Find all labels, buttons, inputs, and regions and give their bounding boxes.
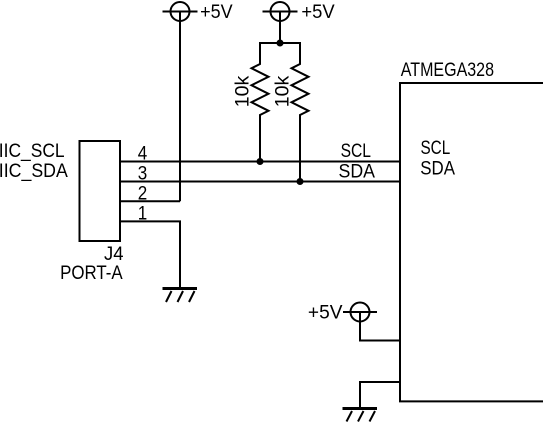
power symbol P3 +5V	[343, 303, 377, 322]
resistor R1 10k	[252, 43, 269, 162]
wire P3 +5V to VCC pin	[360, 312, 400, 341]
svg-text:SCL: SCL	[421, 138, 451, 159]
wire SCL pin 4 to ATMEGA	[120, 161, 400, 163]
svg-text:+5V: +5V	[200, 2, 233, 23]
svg-text:+5V: +5V	[308, 302, 343, 323]
junction dot SCL	[257, 158, 264, 165]
svg-text:J4: J4	[104, 244, 124, 265]
wire P1 +5V down to pin 2	[179, 12, 181, 202]
wire pin 2	[120, 200, 180, 202]
svg-text:+5V: +5V	[301, 2, 335, 23]
ground GND2	[343, 407, 378, 422]
svg-text:10k: 10k	[233, 75, 254, 107]
connector J4 body	[80, 141, 121, 241]
wire pull-up top rail	[259, 42, 301, 44]
wire pin 1 to ground	[120, 221, 180, 287]
power symbol P2 +5V	[263, 2, 298, 21]
svg-text:4: 4	[138, 144, 148, 165]
ground GND1	[163, 287, 198, 302]
junction dot rail	[277, 40, 284, 47]
svg-text:IIC_SDA: IIC_SDA	[0, 161, 68, 182]
svg-text:10k: 10k	[273, 75, 294, 107]
svg-text:2: 2	[138, 183, 148, 204]
svg-text:SCL: SCL	[341, 141, 371, 162]
junction dot SDA	[297, 178, 304, 185]
resistor R2 10k	[292, 43, 309, 182]
power symbol P1 +5V	[163, 2, 198, 21]
wire GND pin	[360, 382, 400, 407]
svg-text:1: 1	[138, 204, 148, 225]
wire SDA pin 3 to ATMEGA	[120, 181, 400, 183]
svg-text:SDA: SDA	[339, 161, 376, 182]
svg-text:IIC_SCL: IIC_SCL	[0, 141, 65, 162]
svg-text:PORT-A: PORT-A	[60, 263, 123, 284]
svg-text:ATMEGA328: ATMEGA328	[401, 60, 494, 81]
IC ATMEGA328 box	[400, 83, 543, 401]
wire P2 +5V down to rail	[279, 12, 281, 44]
svg-text:SDA: SDA	[420, 159, 455, 180]
svg-text:3: 3	[138, 164, 148, 185]
